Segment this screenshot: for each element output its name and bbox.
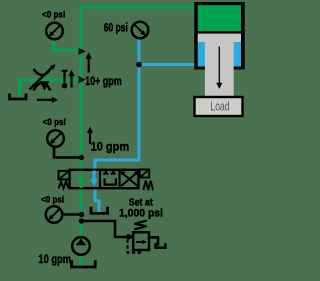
valve center: blocked ports [103,170,116,174]
wire: flow-control branch to tank [20,80,80,99]
wire: blue gauge G2 stem and return line [95,39,139,172]
node: relief branch dot [79,218,84,223]
flow marker arrowhead at FC junction [79,76,86,83]
svg-text:<0 psi: <0 psi [41,194,64,204]
load box [195,97,243,116]
gauge G60 (60 psi) [132,22,149,39]
gauge G3 (<0 psi, bottom) [46,206,63,223]
valve center: P-T connection [105,178,116,184]
spring right [143,181,153,190]
svg-text:60 psi: 60 psi [104,23,128,35]
flow arrow 10+ gpm [88,58,90,73]
spring left [59,182,69,189]
bypass up arrow [70,76,72,88]
flow arrow 10 gpm [89,133,91,145]
node: junction dot G3 [79,212,84,217]
pump P1 [72,237,90,255]
relief valve spring [134,221,147,230]
wire: relief branch [82,221,133,237]
wire: blue valve-to-tank segment [95,187,99,214]
svg-text:<0 psi: <0 psi [43,117,66,127]
tank T1 (flow control) [10,94,27,100]
cylinder rod-side blue fluid [198,42,241,67]
tank T3 (pump suction) [72,260,96,267]
node: junction dot G2 [79,155,84,160]
tank T4 (relief) [156,243,166,248]
relief valve arrow [136,241,143,243]
relief pilot line (dashed) [128,240,141,253]
tank T2 (valve return) [91,207,108,214]
cylinder body [194,2,244,70]
cylinder piston [198,34,241,42]
svg-text:10+ gpm: 10+ gpm [85,76,122,88]
solenoid left [59,171,70,180]
svg-text:10 gpm: 10 gpm [91,141,130,153]
svg-text:Load: Load [210,99,229,114]
wire: relief outlet [149,237,158,245]
free-flow arrow under FC1 [37,99,52,101]
wire: gauge G2 black stem [54,148,80,158]
wire: gauge G3 black stem [63,213,80,216]
valve blue down arrow [93,171,96,181]
gauge G2 (<0 psi, middle) [47,130,64,147]
flow control valve FC1 [34,69,51,75]
svg-text:10 gpm: 10 gpm [38,253,71,266]
svg-text:<0 psi: <0 psi [42,10,65,20]
valve green up arrow [80,177,83,188]
node: relief inlet dot [126,234,131,239]
cylinder cap-side green fluid [198,5,241,31]
rod motion arrow [218,47,220,85]
svg-text:1,000 psi: 1,000 psi [119,208,163,220]
relief valve RV1 body [133,232,149,250]
check valve (ball) [63,71,65,83]
solenoid right [140,170,150,178]
valve right envelope crossed arrows [121,172,137,186]
cylinder rod [205,42,234,97]
wire: main green pressure line (pump to cylinder cap) [81,7,195,267]
flow marker arrowhead at G1 junction [79,48,86,55]
wire: gauge G1 green stem [54,40,80,51]
gauge G1 (<0 psi, top-left) [46,23,63,40]
valve DCV body [70,170,139,188]
wire: blue line to cylinder rod side [139,63,195,66]
node: blue junction dot [136,62,142,68]
